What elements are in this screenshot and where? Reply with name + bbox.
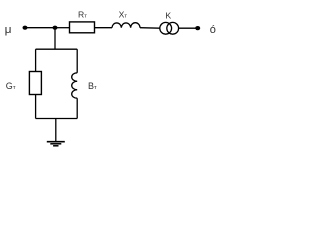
ideal transformer K (two overlapping circles) [160, 22, 179, 34]
wire bottom bus [36, 118, 78, 120]
wire Bт to bottom bus [76, 98, 78, 118]
terminal node (input, left) [23, 26, 28, 30]
wire Gт to bottom bus [35, 95, 37, 119]
wire top bus to Gт [35, 49, 37, 71]
svg-text:K: K [165, 11, 171, 21]
ground [47, 119, 65, 146]
svg-text:Xт: Xт [119, 9, 128, 19]
svg-text:ó: ó [210, 24, 216, 36]
svg-text:μ: μ [5, 24, 12, 36]
svg-text:Gт: Gт [6, 81, 16, 91]
wire top bus of shunt branch [36, 48, 78, 50]
terminal node (output, right) [195, 26, 200, 30]
resistor Rт [70, 22, 95, 33]
svg-text:Rт: Rт [78, 9, 87, 19]
inductor Bт (magnetizing susceptance coil) [72, 73, 78, 98]
wire transformer to output node [179, 27, 198, 29]
wire junction down to shunt branch [54, 28, 56, 50]
svg-text:Bт: Bт [88, 81, 97, 91]
conductance Gт (resistor box) [29, 72, 41, 95]
wire junction to resistor [55, 27, 70, 29]
inductor Xт (series reactance) [112, 23, 140, 28]
wire resistor to inductor [95, 27, 113, 29]
junction node [53, 26, 58, 30]
wire input node to junction [25, 27, 55, 29]
wire top bus to Bт [76, 49, 78, 73]
wire inductor to transformer [140, 27, 160, 30]
